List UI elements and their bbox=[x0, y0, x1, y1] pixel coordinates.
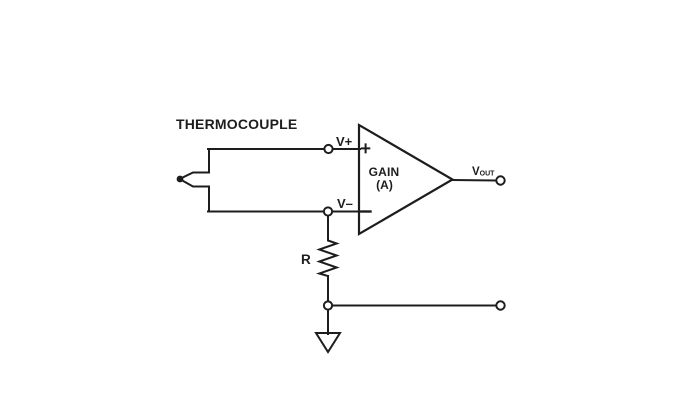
wire resistor to node bbox=[327, 276, 329, 301]
terminal VOUT bbox=[496, 176, 504, 184]
terminal V+ bbox=[324, 145, 332, 153]
terminal reference output bbox=[496, 301, 504, 309]
svg-text:V+: V+ bbox=[336, 134, 353, 149]
wire V- terminal to op-amp bbox=[333, 211, 360, 213]
svg-text:GAIN: GAIN bbox=[369, 165, 400, 179]
svg-text:R: R bbox=[301, 252, 311, 267]
op-amp noninverting input + sign bbox=[362, 144, 369, 152]
wire top rail to V+ terminal bbox=[208, 148, 324, 150]
svg-text:V–: V– bbox=[337, 196, 353, 211]
node junction circle bbox=[324, 301, 332, 309]
thermocouple lower lead wire bbox=[181, 180, 210, 212]
resistor R bbox=[319, 239, 336, 276]
ground symbol bbox=[316, 333, 340, 352]
svg-text:THERMOCOUPLE: THERMOCOUPLE bbox=[176, 116, 297, 132]
thermocouple junction bead bbox=[177, 176, 184, 183]
wire bottom rail to V- terminal bbox=[208, 211, 323, 213]
op-amp U1 triangle bbox=[359, 125, 453, 234]
wire op-amp output bbox=[453, 179, 496, 182]
op-amp inverting input - sign bbox=[362, 210, 371, 212]
wire node to ground bbox=[327, 311, 329, 335]
svg-text:VOUT: VOUT bbox=[472, 166, 495, 178]
wire node to right terminal bbox=[333, 305, 496, 307]
wire V- node to resistor bbox=[327, 217, 329, 241]
svg-text:(A): (A) bbox=[376, 178, 393, 192]
wire V+ terminal to op-amp bbox=[334, 148, 361, 150]
thermocouple upper lead wire bbox=[181, 149, 210, 179]
terminal V- bbox=[324, 207, 332, 215]
